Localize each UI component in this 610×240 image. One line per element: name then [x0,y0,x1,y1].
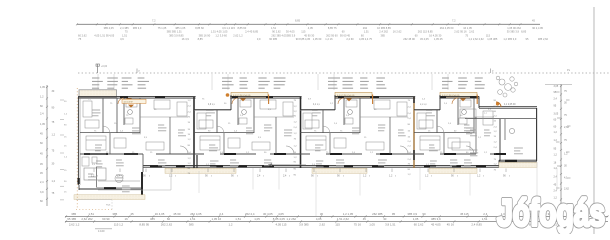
svg-text:5: 5 [483,176,484,178]
svg-text:2,62: 2,62 [564,187,569,190]
svg-text:75: 75 [110,103,113,105]
svg-text:1,2 2,62 2,62: 1,2 2,62 2,62 [469,37,485,41]
svg-text:90 2,4 95: 90 2,4 95 [532,26,543,30]
labeled strip unit4 [440,92,477,97]
unit 4 middle wall [414,153,500,155]
svg-text:75: 75 [52,150,55,153]
orange dotted bottom corner [76,209,112,211]
svg-text:75: 75 [494,169,497,171]
party wall 3 (highlighted) [413,97,415,168]
svg-text:262 45 90: 262 45 90 [403,37,415,41]
svg-text:75: 75 [126,115,129,117]
svg-text:45: 45 [40,153,43,156]
svg-text:1,2: 1,2 [554,131,558,134]
svg-text:5: 5 [457,176,458,178]
svg-text:16 4,05: 16 4,05 [155,212,165,216]
orange door mark unit4 right [496,102,501,107]
unit 3 upper partitions [322,110,324,133]
unit1 orange label strip [122,99,146,103]
terrace front line unit2 [98,189,171,191]
svg-text:5: 5 [97,176,98,178]
guide verticals below building [198,171,200,193]
unit 2 bed [200,136,220,150]
unit1 terrace dashed outline [76,199,112,201]
svg-text:385 3,9: 385 3,9 [431,217,441,221]
svg-text:30: 30 [64,101,67,103]
svg-text:2,62 262: 2,62 262 [81,217,93,221]
svg-text:75 1,05: 75 1,05 [158,26,167,30]
svg-text:2,4: 2,4 [40,181,44,184]
svg-text:30: 30 [564,165,567,168]
svg-text:3,9 1,51: 3,9 1,51 [385,222,396,226]
svg-text:8,85 75: 8,85 75 [328,26,337,30]
entrance notches white-out [196,95,231,99]
svg-text:262 115 8,85: 262 115 8,85 [418,30,434,34]
svg-text:2,62 95 16: 2,62 95 16 [454,30,467,34]
svg-text:4,05: 4,05 [316,217,322,221]
svg-text:45: 45 [40,163,43,166]
svg-text:60 2,62: 60 2,62 [414,222,424,226]
svg-text:90: 90 [64,181,67,183]
svg-text:1,05 60: 1,05 60 [313,37,322,41]
top wall main [78,95,479,97]
svg-text:262 385 4,05: 262 385 4,05 [271,33,287,37]
svg-text:1,2: 1,2 [554,139,558,142]
unit 2 room label stacks [222,77,233,79]
svg-text:262 385: 262 385 [372,212,383,216]
svg-text:60: 60 [554,119,557,122]
unit 3 middle wall [300,153,414,155]
svg-text:1,05 385: 1,05 385 [487,37,498,41]
svg-text:95: 95 [526,37,529,41]
svg-text:1,05: 1,05 [40,123,45,126]
svg-text:385 16 90: 385 16 90 [199,33,211,37]
svg-text:15: 15 [188,134,191,136]
svg-text:262 4,05: 262 4,05 [190,212,202,216]
svg-text:1,2: 1,2 [294,106,298,108]
svg-text:2,4 262: 2,4 262 [379,30,388,34]
living room door arcs [180,146,188,154]
svg-text:385 2,62: 385 2,62 [538,37,549,41]
svg-text:15: 15 [494,121,497,123]
svg-text:90: 90 [408,169,411,171]
svg-text:75: 75 [494,159,497,161]
svg-text:4,1 x,x: 4,1 x,x [313,104,321,106]
svg-text:16 1,05: 16 1,05 [463,26,472,30]
left vertical dimension chain [46,85,48,206]
svg-text:1,2: 1,2 [188,139,192,141]
svg-text:1,05: 1,05 [254,217,260,221]
svg-text:1,2: 1,2 [554,154,558,157]
shrubs upper right [499,79,505,85]
svg-text:5: 5 [317,176,318,178]
left wall [77,97,79,185]
svg-text:1,2: 1,2 [564,153,568,156]
svg-text:2,62 1,2: 2,62 1,2 [233,33,243,37]
svg-text:1,2: 1,2 [494,142,498,144]
svg-text:30: 30 [564,101,567,104]
svg-text:262 2,62: 262 2,62 [161,222,173,226]
svg-text:262 4,05 60: 262 4,05 60 [440,26,454,30]
svg-text:15: 15 [106,152,109,154]
svg-text:1,2: 1,2 [408,174,412,176]
right chain extra marks [556,91,560,93]
svg-text:2,4: 2,4 [188,106,192,108]
svg-text:4,05 2,4 75: 4,05 2,4 75 [359,37,373,41]
svg-text:1,2: 1,2 [425,175,429,178]
svg-text:2,4: 2,4 [422,99,426,101]
svg-text:75: 75 [294,100,297,102]
svg-text:75: 75 [564,139,567,142]
svg-text:x,x: x,x [484,113,488,115]
svg-text:45: 45 [554,183,557,186]
svg-text:1,2: 1,2 [478,137,482,139]
svg-text:385 385 1,51: 385 385 1,51 [167,30,183,34]
svg-text:385: 385 [71,212,76,216]
svg-text:8,85 60: 8,85 60 [238,26,247,30]
unit 2 upper partitions [216,110,218,133]
svg-text:1,2 385 3,9: 1,2 385 3,9 [503,37,517,41]
top wall right section (stepped) [478,96,480,108]
svg-text:3,9: 3,9 [258,137,262,139]
svg-text:385: 385 [381,33,386,37]
svg-text:385: 385 [150,217,155,221]
svg-text:5: 5 [263,176,264,178]
svg-text:45 60: 45 60 [173,212,181,216]
right vertical dimension chain [560,84,562,205]
svg-text:1,2 3,9 60: 1,2 3,9 60 [215,33,227,37]
svg-text:15: 15 [188,122,191,124]
svg-text:45 4,05: 45 4,05 [420,37,429,41]
svg-text:262 2,4: 262 2,4 [245,212,255,216]
svg-text:30: 30 [383,217,387,221]
unit 4 living room [452,142,470,150]
svg-text:95: 95 [554,105,557,108]
unit1 lower labels [88,173,93,175]
unit 4 bed [420,136,440,150]
svg-text:2,62: 2,62 [564,126,569,129]
svg-text:3,9: 3,9 [308,99,312,101]
svg-text:1,51: 1,51 [271,26,277,30]
svg-text:60: 60 [374,109,377,111]
svg-text:7,2: 7,2 [452,19,456,23]
notch wall unit2 [194,108,231,110]
top dimension chain line [77,23,540,25]
svg-text:1,2: 1,2 [488,109,492,111]
svg-text:75: 75 [202,99,205,101]
svg-text:45 115: 45 115 [460,212,469,216]
svg-text:90: 90 [224,103,227,105]
svg-text:60: 60 [40,142,43,145]
svg-text:1,2: 1,2 [188,163,192,165]
svg-text:2,4: 2,4 [408,107,412,109]
svg-text:115: 115 [301,30,306,34]
svg-text:16 4,05 30: 16 4,05 30 [429,33,442,37]
unit 3 room label stacks [328,77,340,79]
svg-text:1,2: 1,2 [64,114,68,116]
unit 1 bath fixtures [126,100,137,107]
svg-text:75: 75 [78,37,81,41]
svg-text:45 4,05: 45 4,05 [431,222,441,226]
svg-text:75: 75 [294,139,297,141]
svg-text:15: 15 [188,129,191,131]
svg-text:60 90: 60 90 [102,217,110,221]
svg-text:2,4: 2,4 [408,113,412,115]
svg-text:90: 90 [143,175,146,178]
svg-text:2,4: 2,4 [294,127,298,129]
svg-text:1,2 1,05: 1,2 1,05 [343,212,354,216]
svg-text:45: 45 [130,212,134,216]
svg-text:90 8,85 4,05: 90 8,85 4,05 [296,37,311,41]
svg-text:8,85: 8,85 [198,37,204,41]
svg-text:5: 5 [431,176,432,178]
unit 3 living room [366,142,384,150]
svg-text:30: 30 [52,90,55,93]
svg-text:30 385 3,9: 30 385 3,9 [507,30,520,34]
svg-text:2,4 385: 2,4 385 [120,26,129,30]
svg-text:1,2 16: 1,2 16 [325,37,333,41]
svg-text:1,2: 1,2 [389,175,393,178]
unit 4 upper partitions [436,110,438,133]
svg-text:2,4: 2,4 [283,175,287,178]
svg-text:75: 75 [408,100,411,102]
svg-text:2,4: 2,4 [240,115,244,117]
svg-text:30: 30 [52,163,55,166]
unit 1 room label stacks [92,77,99,79]
unit 1 living room [146,142,164,150]
svg-text:1,2: 1,2 [294,157,298,159]
svg-text:2,62: 2,62 [319,222,325,226]
svg-text:8,85: 8,85 [295,19,301,23]
svg-text:2,4: 2,4 [494,126,498,128]
main bottom wall units 2-4 [143,165,499,167]
svg-text:1,2: 1,2 [188,158,192,160]
bottom wall right section [498,160,500,167]
svg-text:8,85 60: 8,85 60 [195,26,204,30]
svg-text:3,9: 3,9 [40,191,44,194]
svg-text:15: 15 [228,123,231,125]
svg-text:60: 60 [554,125,557,128]
svg-text:385: 385 [112,212,117,216]
svg-text:75: 75 [188,116,191,118]
svg-text:5: 5 [149,176,150,178]
unit 2 middle wall [194,153,300,155]
svg-text:60 385: 60 385 [269,37,277,41]
svg-text:2,4: 2,4 [483,212,487,216]
svg-text:95 60 45: 95 60 45 [340,33,351,37]
svg-text:90: 90 [294,116,297,118]
svg-text:2,62: 2,62 [469,30,475,34]
svg-text:90: 90 [188,145,191,147]
unit 1 bed [86,136,106,150]
svg-text:15: 15 [64,170,67,172]
unit 3 room labels [312,109,318,111]
svg-text:90: 90 [422,212,426,216]
boundary marker flag [97,64,99,73]
svg-text:90: 90 [503,175,506,178]
small marks above dashed line [136,69,138,74]
svg-text:95: 95 [554,147,557,150]
svg-text:2,4: 2,4 [494,147,498,149]
svg-text:385 3,9: 385 3,9 [133,26,142,30]
svg-text:1:100: 1:100 [98,229,105,233]
svg-text:60: 60 [415,33,418,37]
labeled strip unit2 [231,92,268,97]
unit 4 entrance marker (orange) [460,98,466,101]
svg-text:262: 262 [363,26,368,30]
svg-text:16 2,62: 16 2,62 [393,30,402,34]
svg-text:45 90 30: 45 90 30 [304,33,315,37]
svg-text:Ps: Ps [567,68,571,72]
svg-text:15: 15 [440,152,443,154]
svg-text:1,51: 1,51 [235,217,241,221]
svg-text:8,85 95: 8,85 95 [139,222,149,226]
svg-text:75: 75 [408,163,411,165]
svg-text:3,9: 3,9 [144,137,148,139]
svg-text:1,2: 1,2 [52,134,56,137]
svg-text:385: 385 [189,222,194,226]
svg-text:15: 15 [154,109,157,111]
svg-text:2,4: 2,4 [448,123,452,125]
svg-text:1,2: 1,2 [188,100,192,102]
svg-text:1,2: 1,2 [246,152,250,154]
svg-text:16: 16 [125,217,129,221]
svg-text:1,2: 1,2 [64,157,68,159]
svg-text:2,4: 2,4 [408,141,412,143]
svg-text:1,05 90 262: 1,05 90 262 [507,26,521,30]
svg-text:5: 5 [211,176,212,178]
svg-text:90: 90 [494,111,497,113]
svg-text:5: 5 [175,176,176,178]
svg-text:1,2: 1,2 [294,122,298,124]
svg-text:115: 115 [486,33,491,37]
svg-text:3,9: 3,9 [220,152,224,154]
svg-text:p: p [492,70,494,73]
labeled strip unit3 [335,92,372,97]
svg-text:4,05: 4,05 [308,26,314,30]
svg-text:2,4: 2,4 [257,175,261,178]
svg-text:3,9: 3,9 [120,37,124,41]
unit 3 bath fixtures [346,100,357,107]
svg-text:45: 45 [40,172,43,175]
unit 4 bath fixtures [460,100,471,107]
svg-text:385 1,05: 385 1,05 [175,26,186,30]
svg-text:385 4,05: 385 4,05 [104,26,115,30]
svg-text:3,9: 3,9 [92,164,96,166]
svg-text:90: 90 [52,106,55,109]
svg-text:+x,x: +x,x [106,205,111,207]
svg-text:30: 30 [320,212,324,216]
unit 2 room labels [206,109,214,111]
svg-text:1,2: 1,2 [330,103,334,105]
svg-text:2,4: 2,4 [408,146,412,148]
svg-text:1,51 2,62: 1,51 2,62 [337,217,349,221]
unit 1 room labels [92,109,100,111]
svg-text:3,05: 3,05 [554,85,559,88]
svg-text:2,4: 2,4 [408,159,412,161]
svg-text:95: 95 [554,91,557,94]
svg-text:1,2: 1,2 [294,111,298,113]
svg-text:45: 45 [40,132,43,135]
svg-text:2,4: 2,4 [352,152,356,154]
unit 3 bed [306,136,326,150]
unit 1 upper partitions [102,98,104,133]
svg-text:60: 60 [40,105,43,108]
svg-text:Jófogás: Jófogás [497,193,605,235]
svg-text:90: 90 [408,124,411,126]
svg-text:75: 75 [564,90,567,93]
svg-text:1,2: 1,2 [477,175,481,178]
slope arrow [268,164,290,166]
svg-text:90: 90 [311,175,314,178]
svg-text:45 16: 45 16 [447,222,455,226]
svg-text:90: 90 [205,175,208,178]
svg-text:2,4: 2,4 [346,115,350,117]
svg-text:75: 75 [125,30,128,34]
svg-text:90: 90 [231,175,234,178]
svg-text:262 95 60: 262 95 60 [326,33,338,37]
svg-text:x,x x,x: x,x x,x [420,104,427,106]
svg-text:1,2: 1,2 [40,95,44,98]
svg-text:5: 5 [395,176,396,178]
svg-text:2,4 60: 2,4 60 [346,37,354,41]
svg-text:90: 90 [294,162,297,164]
svg-text:75: 75 [564,114,567,117]
unit 1 middle wall [80,153,194,155]
unit 4 room label stacks [442,77,449,79]
svg-text:1,2: 1,2 [52,180,56,183]
svg-text:45: 45 [363,217,367,221]
svg-text:1,2: 1,2 [229,222,233,226]
svg-text:90 2,62: 90 2,62 [272,30,281,34]
svg-text:2,4: 2,4 [40,113,44,116]
right wall [536,108,538,161]
unit 2 living room [252,142,270,150]
interior wall right block [499,119,501,161]
orange dotted lot line left [76,88,78,208]
svg-text:16 385 8,85: 16 385 8,85 [377,26,391,30]
svg-text:1,2: 1,2 [363,175,367,178]
svg-text:4,9 x,x: 4,9 x,x [208,104,216,106]
svg-text:90: 90 [460,115,463,117]
svg-text:1,51: 1,51 [190,217,196,221]
svg-text:3,9: 3,9 [268,109,272,111]
svg-text:60: 60 [361,33,364,37]
top dimension text rows [78,26,549,41]
svg-text:15: 15 [64,136,67,138]
unit1 bottom protrusion walls [79,188,143,190]
scan page border line [593,7,595,234]
svg-text:7,2: 7,2 [152,19,156,23]
svg-text:4,05 1,51 95: 4,05 1,51 95 [94,33,109,37]
svg-text:2,4: 2,4 [334,123,338,125]
unit 1 entrance marker (orange) [126,98,132,101]
svg-text:1,2: 1,2 [294,146,298,148]
property boundary dashed line [78,72,610,74]
svg-text:+0,00: +0,00 [101,65,108,68]
party wall 2 [300,97,302,168]
svg-text:90: 90 [451,175,454,178]
svg-text:2,4: 2,4 [408,118,412,120]
svg-text:2,4 45 8,85: 2,4 45 8,85 [245,30,259,34]
svg-text:15: 15 [494,136,497,138]
svg-text:385 3,9 8,85: 385 3,9 8,85 [169,33,184,37]
svg-text:2,4: 2,4 [494,116,498,118]
svg-text:1,05: 1,05 [369,222,375,226]
svg-text:2,4: 2,4 [444,103,448,105]
svg-text:4-6 0,5 W: 4-6 0,5 W [124,101,133,103]
orange window highlights at strip ends [268,95,270,105]
